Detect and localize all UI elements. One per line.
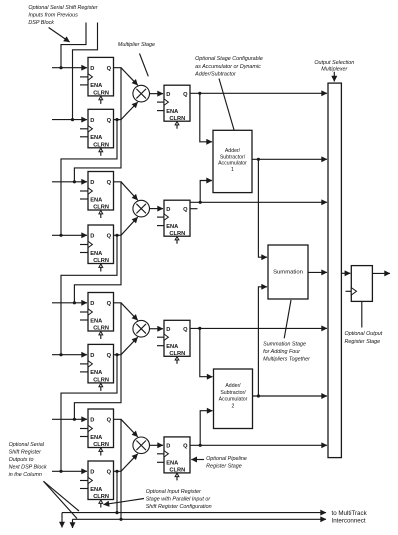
svg-text:Accumulator: Accumulator [218,161,247,167]
wire: A2 Q to corner and cascade to A3 D [74,182,121,303]
wire: adder 1 output branch to summation [258,159,267,257]
wire: B4 Q to corner [114,470,122,472]
wire: serial shift input 1 [61,23,86,68]
wire: diagonal B3 Q to multiplier M3 [121,337,138,355]
svg-text:to MultiTrack: to MultiTrack [332,510,368,517]
wire: diagonal A4 Q to multiplier M4 [121,419,138,437]
svg-text:Interconnect: Interconnect [332,518,366,525]
wire: diagonal B1 Q to multiplier M1 [121,102,138,120]
wire: B1 D input line [52,119,87,121]
pipeline register P2 [157,200,190,244]
wire: P2 branch to adder 1 input 2 [200,181,212,203]
wire: B2 D input line [52,234,87,236]
svg-text:Multiplier Stage: Multiplier Stage [118,42,155,48]
wire: B2 Q to corner [114,234,122,236]
node: A1 D junction [59,66,62,69]
svg-text:Multipliers Together: Multipliers Together [263,357,310,363]
label: Optional Stage Configurable as Accumulator or Dynamic Adder/Subtractor [194,56,263,77]
svg-text:Optional Serial Shift Register: Optional Serial Shift Register [28,5,97,11]
leader line from Multiplier Stage label [140,54,149,77]
wire: serial shift output 1 down arrow [61,513,63,528]
output selection multiplexer [328,83,341,458]
wire: A4 D input line [52,418,87,420]
wire: P4 branch to adder 2 input 2 [200,411,212,446]
wire: P1 Q to output mux [190,92,327,94]
wire: M4 output to P4 [150,444,164,446]
svg-text:Optional Input Register: Optional Input Register [146,489,201,495]
label: to MultiTrack Interconnect [332,510,368,525]
output register [346,266,373,302]
pipeline register P3 [157,320,190,364]
svg-text:Summation: Summation [273,270,303,276]
wire: serial shift output 2 down arrow [72,519,74,528]
register B4 [80,461,114,508]
node: B1 D junction [71,118,74,121]
svg-text:Adder/Subtractor: Adder/Subtractor [194,71,236,77]
adder/subtractor/accumulator 2 [214,369,253,429]
node: interconnect line 2 junction [119,518,122,521]
node: adder 2 output junction [257,394,260,397]
register B2 [80,225,114,272]
register B3 [80,344,114,391]
wire: diagonal A1 Q to multiplier M1 [121,68,138,86]
svg-text:Subtractor/: Subtractor/ [220,390,246,396]
adder/subtractor/accumulator 1 [213,130,252,192]
wire: P1 Q branch to adder 1 input [200,93,212,142]
label: Summation Stage for Adding Four Multipliers Together [263,342,310,363]
wire: interconnect line 2 [73,518,327,520]
svg-text:Optional Serial: Optional Serial [9,442,45,448]
svg-text:for Adding Four: for Adding Four [263,349,300,355]
wire: diagonal A2 Q to multiplier M2 [121,182,138,200]
svg-text:Optional Pipeline: Optional Pipeline [206,456,247,462]
label: Optional Pipeline Register Stage [206,456,247,469]
wire: interconnect line 1 [62,512,326,514]
wire: summation output to mux [308,271,327,273]
leader line 2 from serial output label [44,481,78,518]
wire: P2 Q stub [190,208,198,210]
multiplier M4 [133,437,150,454]
label: Optional Serial Shift Register Outputs to Next DSP Block in the Column [9,442,47,478]
wire: B3 Q to corner [114,354,122,356]
pipeline register P1 [157,85,190,129]
label: Optional Output Register Stage [345,331,383,345]
wire: diagonal B4 Q to multiplier M4 [121,454,138,472]
wire: adder 2 output branch up to summation [258,287,267,396]
svg-text:Adder/: Adder/ [225,383,241,389]
svg-text:Shift Register Configuration: Shift Register Configuration [146,504,212,510]
node: A3 D junction [73,301,76,304]
node: B4 D junction [59,470,62,473]
node: B4 Q junction [115,470,118,473]
svg-text:in the Column: in the Column [9,472,42,478]
wire: P3 Q branch to adder 2 input [200,328,213,376]
svg-text:Summation Stage: Summation Stage [263,342,306,348]
wire: diagonal B2 Q to multiplier M2 [121,217,138,235]
multiplier M2 [133,200,150,217]
wire: B3 D input line [52,354,87,356]
svg-text:Multiplexer: Multiplexer [321,66,347,72]
wire: P2 top output to mux [190,201,327,203]
svg-text:Inputs from Previous: Inputs from Previous [28,12,78,18]
wire: A3 Q to corner and cascade to A4 D [74,303,121,420]
wire: P4 Q to output mux [190,444,327,446]
svg-text:Shift Register: Shift Register [9,449,42,455]
wire: P3 Q to output mux [190,327,327,329]
node: P4 Q junction [199,444,202,447]
node: P2 output junction [199,201,202,204]
wire: B2 Q cascade to B3 D [61,235,117,354]
svg-text:Outputs to: Outputs to [9,457,34,463]
wire: M2 output to P2 [150,208,164,210]
wire: output register clock bottom stem [361,301,363,327]
svg-text:Adder/: Adder/ [225,148,241,154]
node: P1 Q junction [198,92,201,95]
register A3 [80,293,114,340]
wire: B1 Q cascade to B2 D [61,120,117,236]
wire: A2 D input line [52,181,87,183]
svg-text:Accumulator: Accumulator [219,397,248,403]
wire: adder 2 output to mux [253,395,328,397]
node: B3 D junction [59,353,62,356]
leader line from adder/subtractor label [219,79,234,130]
wire: A4 Q to corner and down to interconnect line 2 [114,419,122,519]
register A2 [80,172,114,219]
multiplier M3 [133,320,150,337]
leader line 1 from serial output label [44,481,80,511]
svg-text:Stage with Parallel Input or: Stage with Parallel Input or [146,497,211,503]
register A1 [80,57,114,104]
svg-text:DSP Block: DSP Block [28,20,54,26]
svg-text:2: 2 [232,403,235,409]
pipeline register P4 [157,437,190,481]
wire: B4 Q down to interconnect line 1 [116,471,118,512]
label: Output Selection Multiplexer [314,60,354,73]
svg-text:Register Stage: Register Stage [345,339,381,345]
wire: M3 output to P3 [150,328,164,330]
svg-text:1: 1 [231,167,234,173]
node: B2 Q junction [115,234,118,237]
multiplier M1 [133,85,150,102]
wire: adder 1 output to mux [252,158,327,160]
wire: mux output to output register [341,272,350,274]
node: interconnect line 1 junction [115,511,118,514]
node: P3 Q junction [198,327,201,330]
wire: B3 Q cascade to B4 D [61,355,117,472]
wire: A3 D input line [52,302,87,304]
node: A2 D junction [73,180,76,183]
label: Optional Serial Shift Register Inputs from Previous DSP Block [28,5,97,26]
wire: diagonal A3 Q to multiplier M3 [121,303,138,321]
wire: final output arrow [372,272,390,274]
wire: M1 output to P1 [150,93,164,95]
register A4 [80,409,114,456]
svg-text:Optional Output: Optional Output [345,331,383,337]
svg-text:Output Selection: Output Selection [314,60,354,66]
svg-text:as Accumulator or Dynamic: as Accumulator or Dynamic [195,64,261,70]
leader arrow from input register label to B4 CLRN [104,499,145,505]
node: adder 1 output junction [257,158,260,161]
leader arrow from pipeline label to P4 [191,459,204,461]
leader line from summation label [284,300,291,338]
node: B1 Q junction [115,118,118,121]
leader arrow from serial-input label [49,28,70,43]
register B1 [80,109,114,156]
leader arrow from mux label [333,72,335,82]
wire: A1 D input line [52,67,87,69]
wire: A1 Q to corner [74,68,121,182]
node: B3 Q junction [115,353,118,356]
svg-text:Optional Stage Configurable: Optional Stage Configurable [195,56,263,62]
wire: serial shift input 2 [73,23,98,120]
svg-text:Next DSP Block: Next DSP Block [9,465,47,471]
wire: B4 D input line [52,470,87,472]
node: B2 D junction [59,234,62,237]
svg-text:Register Stage: Register Stage [206,463,242,469]
label: Optional Input Register Stage with Parallel Input or Shift Register Configuration [146,489,212,510]
wire: B1 Q to corner [114,119,122,121]
svg-text:Subtractor/: Subtractor/ [220,154,246,160]
node: A4 D junction [73,418,76,421]
summation block [268,245,308,299]
